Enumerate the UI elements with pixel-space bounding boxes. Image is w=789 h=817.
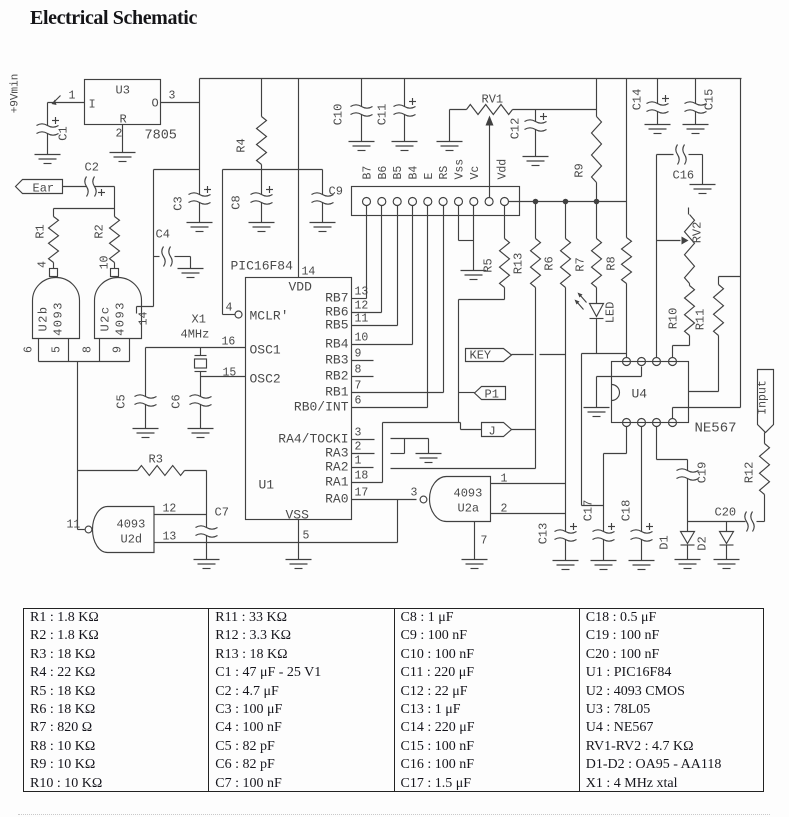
svg-text:B7: B7 xyxy=(362,166,375,180)
svg-text:C10: C10 xyxy=(332,104,346,126)
svg-text:P1: P1 xyxy=(485,388,499,402)
svg-text:Vdd: Vdd xyxy=(497,159,510,180)
svg-text:R1: R1 xyxy=(34,224,48,238)
svg-text:2: 2 xyxy=(501,503,508,516)
svg-text:4: 4 xyxy=(226,302,233,315)
svg-text:B6: B6 xyxy=(377,166,390,180)
svg-text:C13: C13 xyxy=(537,523,551,545)
svg-text:Vss: Vss xyxy=(454,159,467,180)
svg-text:RB1: RB1 xyxy=(325,385,349,400)
svg-text:R9: R9 xyxy=(573,163,587,177)
svg-text:Ear: Ear xyxy=(33,182,55,196)
svg-text:C19: C19 xyxy=(696,462,710,484)
svg-text:R13: R13 xyxy=(512,253,526,275)
svg-text:5: 5 xyxy=(303,530,310,543)
svg-text:U2d: U2d xyxy=(121,533,143,547)
svg-text:C1: C1 xyxy=(57,126,71,140)
svg-text:B4: B4 xyxy=(408,166,421,180)
svg-text:5: 5 xyxy=(51,346,64,353)
svg-text:U2c: U2c xyxy=(99,305,113,331)
svg-text:C17: C17 xyxy=(582,500,596,522)
svg-text:C14: C14 xyxy=(631,89,645,111)
svg-text:14: 14 xyxy=(302,266,316,279)
svg-text:C9: C9 xyxy=(329,185,343,199)
svg-text:3: 3 xyxy=(169,90,176,103)
svg-text:1: 1 xyxy=(69,90,76,103)
svg-text:R5: R5 xyxy=(482,258,496,272)
svg-text:R10: R10 xyxy=(667,308,681,330)
svg-text:RS: RS xyxy=(438,166,451,180)
svg-text:B5: B5 xyxy=(392,166,405,180)
svg-text:9: 9 xyxy=(355,348,362,361)
svg-text:7: 7 xyxy=(481,535,488,548)
svg-text:RB5: RB5 xyxy=(325,318,348,333)
svg-text:10: 10 xyxy=(355,332,369,345)
svg-text:18: 18 xyxy=(355,470,369,483)
svg-text:C6: C6 xyxy=(170,394,184,408)
svg-text:KEY: KEY xyxy=(470,349,492,363)
svg-text:PIC16F84: PIC16F84 xyxy=(231,259,294,274)
svg-text:C11: C11 xyxy=(376,104,390,126)
svg-text:6: 6 xyxy=(355,395,362,408)
svg-text:+9Vmin: +9Vmin xyxy=(10,74,22,114)
svg-text:14: 14 xyxy=(138,312,151,326)
svg-text:C20: C20 xyxy=(715,506,737,520)
svg-text:RB0/INT: RB0/INT xyxy=(294,400,349,415)
svg-text:Input: Input xyxy=(757,380,770,415)
svg-text:R12: R12 xyxy=(743,462,757,484)
svg-text:4MHz: 4MHz xyxy=(181,328,210,342)
svg-text:4093: 4093 xyxy=(454,487,483,501)
svg-text:C18: C18 xyxy=(620,500,634,522)
svg-text:C8: C8 xyxy=(230,195,244,209)
svg-text:11: 11 xyxy=(67,519,81,532)
svg-text:RB2: RB2 xyxy=(325,369,348,384)
svg-text:8: 8 xyxy=(355,364,362,377)
svg-text:VDD: VDD xyxy=(289,280,313,295)
svg-text:17: 17 xyxy=(355,487,369,500)
svg-text:8: 8 xyxy=(82,346,95,353)
svg-text:12: 12 xyxy=(163,503,177,516)
svg-text:RA4/TOCKI: RA4/TOCKI xyxy=(278,432,348,447)
svg-text:R2: R2 xyxy=(93,224,107,238)
svg-text:4: 4 xyxy=(37,261,50,268)
svg-text:R6: R6 xyxy=(543,256,557,270)
svg-text:R4: R4 xyxy=(235,138,249,152)
svg-text:C12: C12 xyxy=(509,118,523,140)
svg-text:1: 1 xyxy=(501,473,508,486)
svg-text:4093: 4093 xyxy=(117,518,146,532)
svg-text:U3: U3 xyxy=(116,84,130,98)
svg-text:Vc: Vc xyxy=(469,166,482,180)
svg-text:2: 2 xyxy=(116,128,123,141)
svg-text:R7: R7 xyxy=(574,257,588,271)
svg-text:11: 11 xyxy=(355,313,369,326)
svg-text:U2a: U2a xyxy=(458,502,480,516)
svg-text:6: 6 xyxy=(23,346,36,353)
svg-text:1: 1 xyxy=(355,455,362,468)
svg-text:RB4: RB4 xyxy=(325,337,349,352)
svg-text:R: R xyxy=(120,113,127,127)
svg-text:E: E xyxy=(423,173,436,180)
svg-text:LED: LED xyxy=(604,302,618,324)
svg-text:R11: R11 xyxy=(694,309,708,331)
svg-text:D2: D2 xyxy=(696,536,710,550)
svg-text:RA1: RA1 xyxy=(325,475,349,490)
svg-text:U4: U4 xyxy=(632,387,648,402)
svg-text:C16: C16 xyxy=(673,169,695,183)
svg-text:C2: C2 xyxy=(85,161,99,175)
svg-text:O: O xyxy=(152,97,159,111)
svg-text:15: 15 xyxy=(223,367,237,380)
svg-text:RA0: RA0 xyxy=(325,492,348,507)
svg-text:OSC2: OSC2 xyxy=(250,372,281,387)
svg-text:OSC1: OSC1 xyxy=(250,343,281,358)
svg-text:RA2: RA2 xyxy=(325,460,348,475)
svg-text:4093: 4093 xyxy=(114,301,128,336)
svg-text:RB3: RB3 xyxy=(325,353,348,368)
svg-text:U2b: U2b xyxy=(37,305,51,331)
svg-text:4093: 4093 xyxy=(52,301,66,336)
svg-text:3: 3 xyxy=(355,427,362,440)
svg-text:13: 13 xyxy=(163,531,177,544)
svg-text:C4: C4 xyxy=(156,228,170,242)
svg-text:MCLR': MCLR' xyxy=(250,309,289,324)
svg-text:10: 10 xyxy=(99,256,112,270)
svg-text:R8: R8 xyxy=(605,256,619,270)
svg-text:C3: C3 xyxy=(172,196,186,210)
svg-text:VSS: VSS xyxy=(286,508,310,523)
svg-text:7: 7 xyxy=(355,380,362,393)
svg-text:C5: C5 xyxy=(115,394,129,408)
svg-text:D1: D1 xyxy=(658,535,672,549)
svg-text:RV2: RV2 xyxy=(691,222,705,244)
svg-text:X1: X1 xyxy=(192,313,206,327)
svg-text:2: 2 xyxy=(355,441,362,454)
svg-text:9: 9 xyxy=(112,346,125,353)
svg-text:U1: U1 xyxy=(259,478,275,493)
svg-text:I: I xyxy=(89,98,96,112)
svg-text:C7: C7 xyxy=(215,506,229,520)
svg-text:R3: R3 xyxy=(149,453,163,467)
svg-text:RV1: RV1 xyxy=(482,93,504,107)
svg-text:16: 16 xyxy=(222,336,236,349)
svg-text:3: 3 xyxy=(411,487,418,500)
svg-text:J: J xyxy=(489,425,496,439)
svg-text:12: 12 xyxy=(355,300,369,313)
svg-text:NE567: NE567 xyxy=(695,421,737,437)
svg-text:RA3: RA3 xyxy=(325,446,348,461)
svg-text:C15: C15 xyxy=(703,89,717,111)
svg-text:RB7: RB7 xyxy=(325,291,348,306)
svg-text:7805: 7805 xyxy=(145,129,177,144)
